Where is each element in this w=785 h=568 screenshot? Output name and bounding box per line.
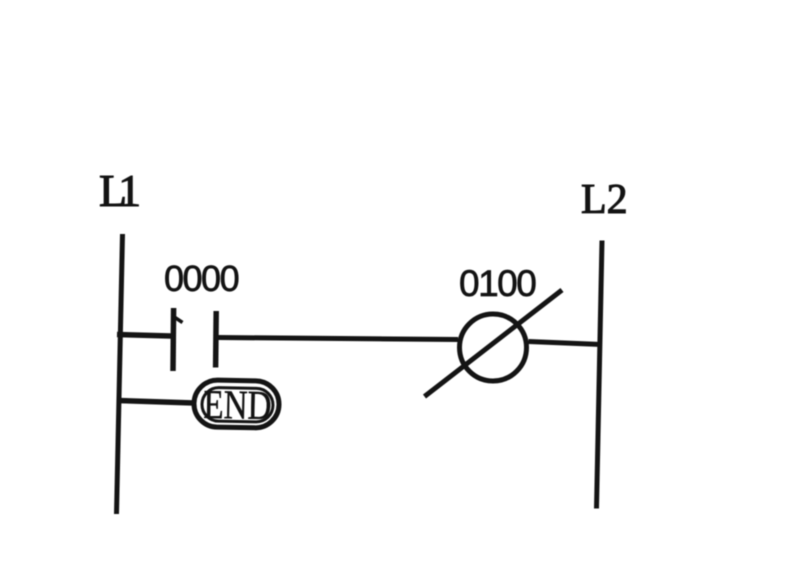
- power rail L1: [117, 234, 123, 514]
- wire coil-to-rail: [529, 342, 602, 345]
- contact 0000: [173, 308, 216, 371]
- svg-text:0000: 0000: [164, 258, 239, 299]
- wire rail-to-contact: [117, 335, 171, 337]
- power rail L2: [597, 241, 603, 509]
- wire rail-to-END: [117, 401, 194, 404]
- svg-text:0100: 0100: [459, 263, 536, 304]
- END instruction: [194, 380, 280, 428]
- wire contact-to-coil: [219, 338, 459, 340]
- coil 0100: [425, 290, 563, 397]
- svg-text:END: END: [203, 381, 272, 428]
- svg-text:L2: L2: [581, 177, 628, 223]
